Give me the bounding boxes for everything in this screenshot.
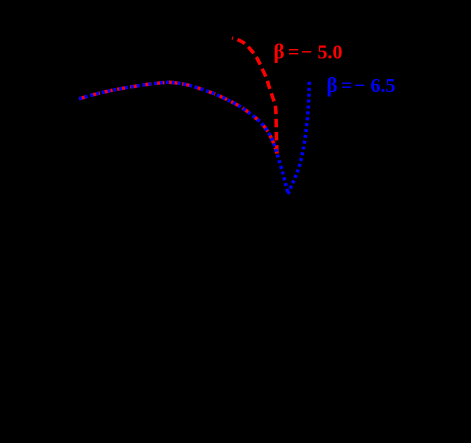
curve beta=-6.5 blue dotted: left arc through shared branch down to blue cusp <box>79 82 288 194</box>
curve beta=-5.0 red dashed: shared left arc down to red cusp <box>79 82 277 153</box>
curve beta=-5.0 red dashed: steep right branch up from red cusp <box>232 38 277 154</box>
svg-text:β=−5.0: β=−5.0 <box>274 40 343 64</box>
svg-text:β=−6.5: β=−6.5 <box>327 73 396 97</box>
curve beta=-6.5 blue dotted: right branch up from blue cusp <box>288 81 309 194</box>
